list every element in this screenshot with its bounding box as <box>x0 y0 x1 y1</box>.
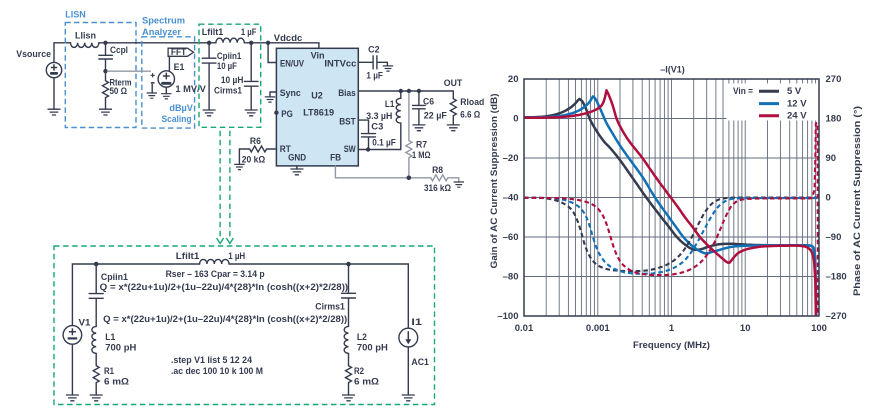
node R7 top <box>407 89 411 93</box>
zoom indicator dashed arrows <box>217 131 234 244</box>
svg-text:1: 1 <box>669 323 675 334</box>
svg-text:R7: R7 <box>416 139 427 149</box>
wire FB (gray) <box>335 166 430 178</box>
resistor R8 316 kOhm (gray) <box>424 165 459 193</box>
svg-text:–I(V1): –I(V1) <box>660 64 685 75</box>
pin PG dot <box>274 111 278 115</box>
svg-text:1 µF: 1 µF <box>366 70 383 80</box>
svg-text:700 pH: 700 pH <box>105 343 136 353</box>
phase curve 5V (dark dashed) <box>524 198 819 272</box>
svg-text:.step V1 list 5 12 24: .step V1 list 5 12 24 <box>171 355 252 365</box>
voltage source Vsource <box>16 49 61 78</box>
phase curve 12V (blue dashed) <box>524 198 819 274</box>
inductor Lfilt1 1uH (detail) <box>176 251 245 264</box>
input filter dashed green box <box>199 24 261 127</box>
E1 input + terminal <box>151 73 155 77</box>
gain curve 24V (red) <box>524 90 816 316</box>
svg-text:U2: U2 <box>311 90 323 100</box>
svg-text:–80: –80 <box>503 272 519 283</box>
wire FFT to E1 <box>168 56 170 71</box>
capacitor Cirms1 (top) <box>214 43 258 110</box>
node L1 top <box>399 89 403 93</box>
svg-text:Cpiin1: Cpiin1 <box>101 272 128 282</box>
wire Lfilt1 to Vdcdc <box>244 43 319 49</box>
plot border <box>524 79 819 316</box>
svg-text:180: 180 <box>826 114 842 125</box>
resistor R2 6 mOhm <box>346 353 380 395</box>
node rail/Cpiin1 <box>207 41 211 45</box>
svg-text:Llisn: Llisn <box>75 31 96 41</box>
svg-text:10 µH: 10 µH <box>221 75 244 85</box>
svg-text:Rser – 163 Cpar = 3.14 p: Rser – 163 Cpar = 3.14 p <box>166 269 265 279</box>
capacitor Cirms1 (detail) <box>315 264 355 326</box>
equivalent circuit dashed green box <box>54 246 435 405</box>
svg-text:5 V: 5 V <box>787 86 802 97</box>
svg-text:V1: V1 <box>79 318 91 328</box>
svg-text:Analyzer: Analyzer <box>142 27 182 37</box>
wire rail Llisn to Lfilt1 <box>99 42 216 44</box>
svg-text:12 V: 12 V <box>787 99 807 110</box>
svg-text:R8: R8 <box>432 165 443 175</box>
LISN dashed box <box>65 23 136 128</box>
schematic: LT8619 EMI filter circuit <box>16 10 484 405</box>
ground (Cirms1) <box>245 110 258 116</box>
svg-text:PG: PG <box>281 109 293 119</box>
wire Bias output rail <box>358 91 453 99</box>
voltage source V1 <box>63 318 90 345</box>
ground (V1) <box>66 395 79 401</box>
svg-text:Cirms1: Cirms1 <box>214 86 242 96</box>
svg-text:–180: –180 <box>826 272 847 283</box>
svg-text:C2: C2 <box>368 45 380 55</box>
ground (Cpiin1) <box>203 110 216 116</box>
gain curve 12V (blue) <box>524 96 816 316</box>
wire Sync to ground <box>270 92 276 97</box>
right y-axis tick labels <box>826 74 847 322</box>
capacitor Ccpl <box>99 43 128 71</box>
svg-text:L2: L2 <box>357 332 367 342</box>
wire E1 to ground <box>165 87 167 94</box>
wire V1 branch <box>72 264 199 326</box>
svg-text:Ccpl: Ccpl <box>110 45 128 55</box>
phase curve 24V (red dashed) <box>524 123 818 316</box>
svg-text:Bias: Bias <box>338 88 356 98</box>
svg-text:Vin =: Vin = <box>733 86 753 97</box>
svg-text:BST: BST <box>339 117 356 127</box>
svg-text:316 kΩ: 316 kΩ <box>424 183 451 193</box>
ground (E1) <box>161 94 171 99</box>
inductor L2 700pH <box>344 326 388 353</box>
svg-text:1 MΩ: 1 MΩ <box>412 150 431 160</box>
node C6 top <box>417 89 421 93</box>
svg-text:I1: I1 <box>411 317 422 327</box>
svg-text:C3: C3 <box>371 121 383 131</box>
x-axis tick labels <box>515 323 827 334</box>
inductor Llisn <box>71 31 99 48</box>
inductor Lfilt1 (top) <box>202 27 257 43</box>
svg-text:270: 270 <box>826 74 842 85</box>
svg-text:Spectrum: Spectrum <box>142 16 185 26</box>
svg-text:EN/UV: EN/UV <box>280 59 304 69</box>
ground (C6) <box>412 125 425 131</box>
svg-text:FFT: FFT <box>171 47 187 57</box>
svg-text:C6: C6 <box>423 96 434 106</box>
ground (R2) <box>342 395 355 401</box>
svg-text:–100: –100 <box>497 311 518 322</box>
svg-text:Phase of AC Current Suppressio: Phase of AC Current Suppression (°) <box>852 106 862 296</box>
svg-text:Vdcdc: Vdcdc <box>274 33 303 43</box>
svg-text:1 µH: 1 µH <box>228 251 245 261</box>
svg-text:20 kΩ: 20 kΩ <box>242 155 265 165</box>
label dBuV Scaling <box>162 103 193 124</box>
svg-text:LT8619: LT8619 <box>303 107 334 117</box>
svg-text:SW: SW <box>344 144 357 154</box>
svg-text:INTVcc: INTVcc <box>324 59 356 69</box>
wire E1 - terminal to ground <box>151 85 153 94</box>
wire SW to L1 <box>358 149 401 151</box>
node SW/C3 <box>366 147 370 151</box>
Spectrum Analyzer dashed box <box>142 37 195 128</box>
capacitor C3 0.1uF <box>358 120 396 149</box>
svg-text:Vin: Vin <box>311 50 325 60</box>
svg-text:GND: GND <box>288 152 306 162</box>
ground (GND pin) <box>290 169 303 175</box>
svg-text:100: 100 <box>811 323 827 334</box>
ground (Rload) <box>447 125 460 131</box>
node FB/R7/R8 <box>407 176 412 181</box>
ground (E1 input) <box>147 93 157 98</box>
svg-text:1 µF: 1 µF <box>241 27 257 37</box>
legend box <box>727 84 819 122</box>
current source I1 AC1 <box>399 317 429 367</box>
ground (R8) <box>454 182 464 187</box>
svg-text:Gain of AC Current Suppression: Gain of AC Current Suppression (dB) <box>489 93 499 268</box>
wire Vsource to rail <box>54 43 71 63</box>
wire Vdcdc to EN/UV <box>268 43 276 63</box>
E1 input - terminal <box>151 82 155 84</box>
controlled source E1 <box>158 62 184 87</box>
label Spectrum Analyzer <box>142 16 185 37</box>
inductor L1 700pH (detail) <box>92 326 136 353</box>
ground (R6) <box>234 164 244 169</box>
svg-text:dBµV: dBµV <box>169 103 193 113</box>
left y-axis tick labels <box>497 74 518 322</box>
wire GND pin <box>296 166 298 169</box>
svg-text:E1: E1 <box>174 62 185 72</box>
svg-text:–60: –60 <box>503 232 519 243</box>
svg-text:0: 0 <box>826 193 831 204</box>
resistor R7 1 MOhm (gray) <box>406 93 431 177</box>
resistor R1 6 mOhm <box>93 353 129 395</box>
svg-text:AC1: AC1 <box>411 357 429 367</box>
svg-text:Sync: Sync <box>280 88 301 98</box>
resistor Rload 6.6 Ohm <box>450 97 484 125</box>
svg-text:Q = x*(22u+1u)/2+(1u–22u)/4*{2: Q = x*(22u+1u)/2+(1u–22u)/4*{28}*ln (cos… <box>103 314 347 324</box>
node rail/Ccpl <box>103 41 107 45</box>
svg-text:L1: L1 <box>105 332 115 342</box>
ground (Rterm) <box>99 109 112 115</box>
wire V1 to ground <box>71 344 73 395</box>
svg-text:R1: R1 <box>104 366 114 376</box>
grid minor/major vertical lines <box>546 79 815 316</box>
svg-text:R2: R2 <box>354 366 364 376</box>
svg-text:0.1 µF: 0.1 µF <box>372 138 396 148</box>
wire I1 to ground <box>407 347 409 395</box>
grid horizontal lines <box>524 119 819 277</box>
svg-text:10: 10 <box>740 323 751 334</box>
capacitor C6 22uF <box>413 91 448 125</box>
svg-text:Q = x*(22u+1u)/2+(1u–22u)/4*{2: Q = x*(22u+1u)/2+(1u–22u)/4*{28}*ln (cos… <box>100 282 349 292</box>
resistor Rterm 50 Ohm <box>103 71 132 109</box>
ground (Sync) <box>265 97 275 102</box>
svg-text:L1: L1 <box>385 99 395 109</box>
gain curve 5V (dark) <box>524 99 816 316</box>
svg-text:50 Ω: 50 Ω <box>110 86 128 96</box>
svg-text:Vsource: Vsource <box>16 49 51 59</box>
svg-text:–20: –20 <box>503 153 519 164</box>
wire sense (gray) Ccpl to E1 <box>108 70 151 72</box>
svg-text:6.6 Ω: 6.6 Ω <box>460 109 480 119</box>
svg-text:Cpiin1: Cpiin1 <box>217 51 242 61</box>
svg-text:–270: –270 <box>826 311 847 322</box>
svg-text:700 pH: 700 pH <box>357 343 388 353</box>
svg-text:0.01: 0.01 <box>515 323 534 334</box>
svg-text:0: 0 <box>513 114 518 125</box>
svg-text:–90: –90 <box>826 232 842 243</box>
svg-text:Rload: Rload <box>460 97 484 107</box>
svg-text:Lfilt1: Lfilt1 <box>176 251 200 261</box>
svg-text:10 µF: 10 µF <box>217 61 238 71</box>
svg-text:Lfilt1: Lfilt1 <box>202 27 224 37</box>
svg-text:LISN: LISN <box>65 10 86 20</box>
svg-text:3.3 µH: 3.3 µH <box>366 111 392 121</box>
FFT flag <box>168 47 193 57</box>
svg-text:Frequency (MHz): Frequency (MHz) <box>633 340 710 351</box>
capacitor Cpiin1 (detail) <box>89 264 128 326</box>
svg-text:FB: FB <box>330 152 341 162</box>
ground (I1) <box>402 395 415 401</box>
svg-text:0.001: 0.001 <box>586 323 610 334</box>
svg-text:–40: –40 <box>503 193 519 204</box>
svg-text:.ac dec 100 10 k 100 M: .ac dec 100 10 k 100 M <box>171 366 263 376</box>
ground (C2) <box>383 66 393 71</box>
node Vdcdc <box>266 41 270 45</box>
svg-text:24 V: 24 V <box>787 111 807 122</box>
node Ccpl/Rterm/E1 <box>103 69 107 73</box>
svg-text:20: 20 <box>508 74 519 85</box>
svg-text:6 mΩ: 6 mΩ <box>354 376 379 386</box>
svg-text:Cirms1: Cirms1 <box>315 301 345 311</box>
resistor R6 20 kOhm <box>239 136 276 165</box>
capacitor Cpiin1 (top) <box>202 43 241 110</box>
wire Vsource to ground <box>53 78 55 109</box>
svg-text:Scaling: Scaling <box>162 114 192 124</box>
svg-text:1 MV/V: 1 MV/V <box>175 84 206 94</box>
wire rail to I1 <box>229 264 408 328</box>
inductor L1 3.3uH <box>366 91 401 150</box>
ground (R1) <box>90 395 103 401</box>
svg-text:22 µF: 22 µF <box>424 111 448 121</box>
op IC U2 LT8619 <box>276 48 358 166</box>
svg-text:6 mΩ: 6 mΩ <box>104 376 129 386</box>
capacitor C2 1uF <box>358 45 387 81</box>
node rail/Cpiin1 (detail) <box>94 262 99 267</box>
svg-text:90: 90 <box>826 153 837 164</box>
svg-text:R6: R6 <box>250 136 261 146</box>
svg-text:OUT: OUT <box>444 78 463 88</box>
ground (Vsource) <box>48 109 61 115</box>
node rail/Cirms1 (detail) <box>346 262 351 267</box>
node rail/Cirms1 <box>249 41 253 45</box>
chart: gain/phase plot <box>489 64 862 350</box>
